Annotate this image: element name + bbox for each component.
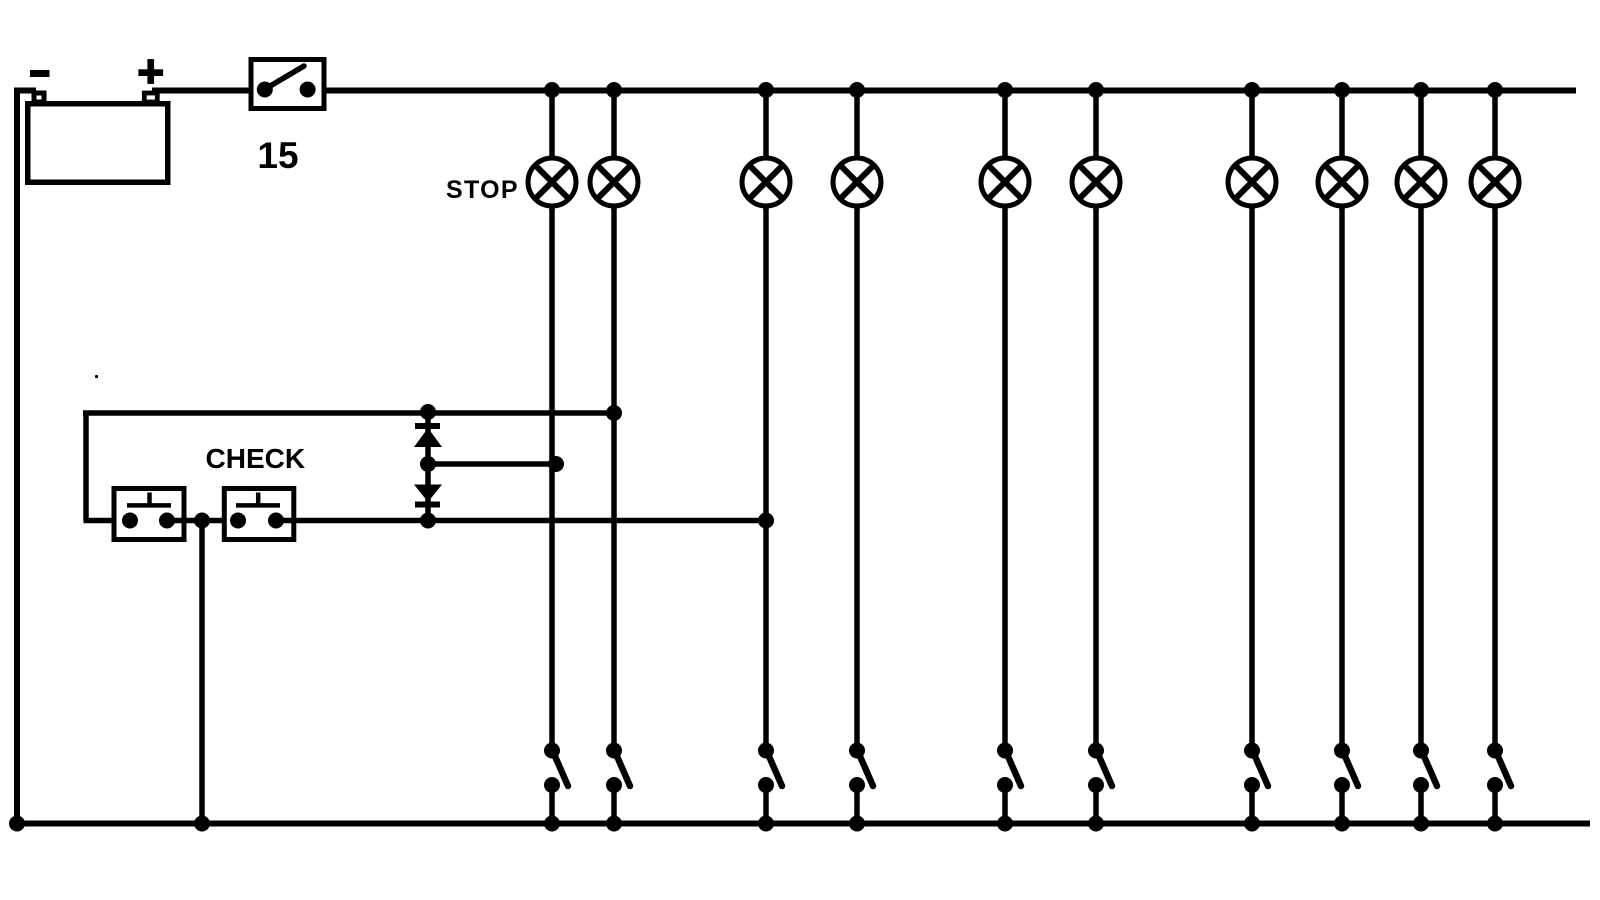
- svg-text:CHECK: CHECK: [206, 443, 306, 474]
- wire bus to lamp L9: [1418, 90, 1424, 160]
- switch S1: [544, 743, 568, 794]
- wire diode branch: [425, 413, 431, 521]
- wire check loop top: [83, 410, 614, 416]
- node ground junction col 4: [849, 816, 865, 832]
- switch S10: [1487, 743, 1511, 794]
- wire check bottom rail segment 3: [276, 518, 766, 524]
- wire lamp L1 to switch S1: [549, 205, 555, 751]
- node N3 top bus junction: [758, 82, 774, 98]
- node ground junction col 2: [606, 816, 622, 832]
- wire switch S6 to ground bus: [1093, 785, 1099, 823]
- wire switch S5 to ground bus: [1002, 785, 1008, 823]
- battery positive terminal: [144, 93, 157, 102]
- wire switch S9 to ground bus: [1418, 785, 1424, 823]
- lamp L2: [590, 158, 638, 206]
- node N10 top bus junction: [1487, 82, 1503, 98]
- lamp L1: [528, 158, 576, 206]
- wire bus to lamp L3: [763, 90, 769, 160]
- wire lamp L8 to switch S8: [1339, 205, 1345, 751]
- wire bus to lamp L4: [854, 90, 860, 160]
- wire lamp L5 to switch S5: [1002, 205, 1008, 751]
- diode D1: [414, 426, 442, 447]
- wire lamp L2 to switch S2: [611, 205, 617, 751]
- pushbutton SW2: [224, 489, 293, 540]
- wire check bottom rail segment 1: [84, 518, 131, 524]
- switch S9: [1413, 743, 1437, 794]
- wire battery positive to switch 15: [152, 88, 252, 94]
- wire switch S2 to ground bus: [611, 785, 617, 823]
- wire ground bus: [14, 821, 1590, 827]
- node ground junction col 9: [1413, 816, 1429, 832]
- wire bus to lamp L2: [611, 90, 617, 160]
- wire check tap to ground bus: [199, 521, 205, 824]
- wire bus to lamp L8: [1339, 90, 1345, 160]
- wire bus to lamp L1: [549, 90, 555, 160]
- switch S7: [1244, 743, 1268, 794]
- battery G1: [28, 104, 168, 183]
- label minus: [30, 70, 50, 77]
- node ground junction col 8: [1334, 816, 1350, 832]
- switch S3: [758, 743, 782, 794]
- svg-text:STOP: STOP: [446, 176, 519, 204]
- wire lamp L3 to switch S3: [763, 205, 769, 751]
- switch S5: [997, 743, 1021, 794]
- wire check bottom rail segment 2: [167, 518, 238, 524]
- node N9 top bus junction: [1413, 82, 1429, 98]
- diode D2: [414, 485, 442, 505]
- wire check loop left: [83, 411, 89, 521]
- wire top supply bus: [326, 88, 1576, 94]
- node N2 top bus junction: [606, 82, 622, 98]
- node N7 top bus junction: [1244, 82, 1260, 98]
- lamp L4: [833, 158, 881, 206]
- wire switch S1 to ground bus: [549, 785, 555, 823]
- wire switch S4 to ground bus: [854, 785, 860, 823]
- wire lamp L6 to switch S6: [1093, 205, 1099, 751]
- node ground junction col 7: [1244, 816, 1260, 832]
- node N6 top bus junction: [1088, 82, 1104, 98]
- node tap at column 1: [548, 456, 564, 472]
- node N4 top bus junction: [849, 82, 865, 98]
- node check top at column 2: [606, 405, 622, 421]
- switch S2: [606, 743, 630, 794]
- wire switch S3 to ground bus: [763, 785, 769, 823]
- node ground junction col 5: [997, 816, 1013, 832]
- lamp L8: [1318, 158, 1366, 206]
- wire bus to lamp L10: [1492, 90, 1498, 160]
- node check at column 3: [758, 513, 774, 529]
- wire lamp L10 to switch S10: [1492, 205, 1498, 751]
- lamp L6: [1072, 158, 1120, 206]
- wire switch S7 to ground bus: [1249, 785, 1255, 823]
- node diode mid tap: [420, 456, 436, 472]
- lamp L9: [1397, 158, 1445, 206]
- node diode branch bottom: [420, 513, 436, 529]
- switch S8: [1334, 743, 1358, 794]
- node ground junction col 6: [1088, 816, 1104, 832]
- node check ground tap: [194, 513, 210, 529]
- node ground junction col 3: [758, 816, 774, 832]
- wire bus to lamp L6: [1093, 90, 1099, 160]
- wire switch S10 to ground bus: [1492, 785, 1498, 823]
- switch 15: [251, 60, 324, 109]
- node ground at check tap: [194, 816, 210, 832]
- node ground junction col 1: [544, 816, 560, 832]
- lamp L3: [742, 158, 790, 206]
- node N5 top bus junction: [997, 82, 1013, 98]
- node ground at battery: [9, 816, 25, 832]
- node N8 top bus junction: [1334, 82, 1350, 98]
- switch S4: [849, 743, 873, 794]
- label plus: [138, 59, 163, 84]
- wire switch S8 to ground bus: [1339, 785, 1345, 823]
- wire lamp L9 to switch S9: [1418, 205, 1424, 751]
- lamp L10: [1471, 158, 1519, 206]
- wire lamp L7 to switch S7: [1249, 205, 1255, 751]
- svg-text:15: 15: [257, 135, 298, 176]
- pushbutton SW1: [114, 489, 184, 540]
- node N1 top bus junction: [544, 82, 560, 98]
- battery negative terminal: [34, 93, 44, 102]
- lamp L5: [981, 158, 1029, 206]
- wire bus to lamp L5: [1002, 90, 1008, 160]
- wire bus to lamp L7: [1249, 90, 1255, 160]
- lamp L7: [1228, 158, 1276, 206]
- node ground junction col 10: [1487, 816, 1503, 832]
- wire diode tap to column 1: [428, 461, 556, 467]
- switch S6: [1088, 743, 1112, 794]
- wire lamp L4 to switch S4: [854, 205, 860, 751]
- wire battery negative to ground bus: [17, 91, 36, 824]
- node diode branch top: [420, 404, 436, 420]
